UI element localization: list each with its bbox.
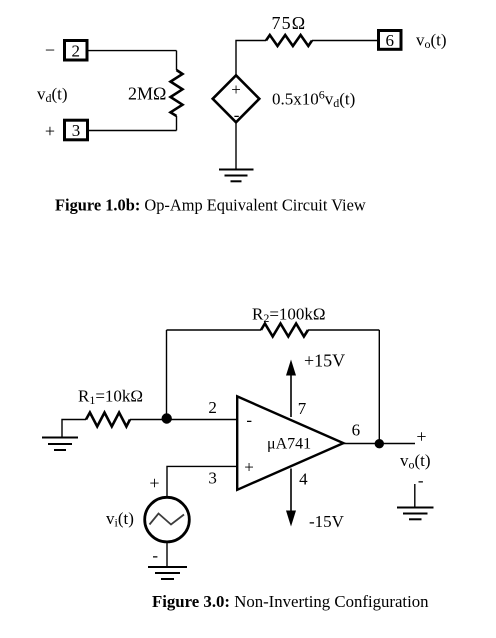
svg-text:vi(t): vi(t) — [106, 509, 134, 530]
svg-text:-: - — [418, 471, 424, 490]
wire R1 to summing node — [130, 419, 167, 421]
dependent source U1 (diamond VCVS) — [213, 75, 260, 124]
resistor Rin 2MΩ (vertical zigzag) — [171, 51, 183, 131]
wire dependent source top to 75Ω resistor — [236, 41, 266, 76]
svg-text:-: - — [152, 546, 158, 565]
wire source bottom to ground — [166, 542, 168, 567]
svg-text:R1=10kΩ: R1=10kΩ — [78, 387, 143, 408]
svg-text:2MΩ: 2MΩ — [128, 84, 166, 104]
svg-text:vo(t): vo(t) — [400, 451, 431, 472]
svg-text:7: 7 — [298, 399, 307, 418]
wire dependent source bottom to ground — [235, 122, 237, 169]
svg-text:2: 2 — [208, 398, 217, 417]
ground (fig2, below source) — [148, 567, 187, 579]
junction node (output node) — [375, 439, 384, 448]
svg-text:+: + — [244, 458, 254, 477]
wire ground to R1 — [62, 420, 86, 438]
svg-text:R2=100kΩ: R2=100kΩ — [252, 305, 326, 326]
svg-text:−: − — [45, 40, 55, 60]
ground (fig2 right, output reference) — [397, 508, 434, 520]
wire feedback left vertical — [166, 330, 168, 418]
wire feedback top right segment — [308, 329, 379, 331]
svg-text:+: + — [231, 80, 241, 99]
power arrow -15V (pin 4) — [286, 469, 296, 527]
svg-text:+15V: +15V — [304, 351, 345, 371]
svg-text:+: + — [416, 427, 426, 447]
svg-text:0.5x106vd(t): 0.5x106vd(t) — [272, 88, 355, 111]
source V1 vi(t) (circle with triangle wave) — [145, 497, 190, 542]
wire feedback right vertical — [378, 330, 380, 444]
resistor Ro 75Ω (horizontal zigzag) — [266, 35, 312, 46]
wire op-amp output — [343, 443, 415, 445]
svg-text:3: 3 — [208, 469, 217, 488]
svg-text:vd(t): vd(t) — [37, 85, 68, 106]
svg-text:-15V: -15V — [309, 512, 345, 531]
terminal box pin 3 — [65, 120, 88, 140]
svg-text:75Ω: 75Ω — [272, 13, 307, 33]
junction node (summing node, inverting input) — [162, 413, 172, 423]
svg-text:3: 3 — [72, 121, 81, 140]
wire pin3 to Rin bottom — [89, 130, 177, 132]
wire vo to ground — [414, 484, 416, 507]
svg-text:vo(t): vo(t) — [416, 31, 447, 52]
svg-text:+: + — [45, 121, 55, 141]
power arrow +15V (pin 7) — [286, 360, 296, 418]
svg-text:+: + — [149, 473, 159, 493]
svg-text:Figure 3.0: Non-Inverting Conf: Figure 3.0: Non-Inverting Configuration — [152, 592, 429, 611]
ground (fig1, below dependent source) — [219, 170, 254, 182]
svg-text:-: - — [246, 410, 252, 429]
resistor R1 (horizontal zigzag) — [86, 413, 130, 427]
wire summing node to op-amp inverting input — [167, 419, 238, 421]
svg-text:4: 4 — [299, 470, 308, 489]
wire 75Ω to pin 6 box — [312, 40, 377, 42]
svg-text:μA741: μA741 — [267, 436, 311, 453]
terminal box pin 2 — [65, 41, 88, 61]
resistor R2 (horizontal zigzag) — [261, 324, 308, 337]
svg-text:6: 6 — [352, 421, 361, 440]
terminal box pin 6 — [379, 31, 402, 50]
wire pin2 to Rin — [89, 50, 177, 52]
svg-text:2: 2 — [71, 41, 80, 60]
svg-text:6: 6 — [385, 31, 394, 50]
svg-text:Figure 1.0b: Op-Amp Equivalent: Figure 1.0b: Op-Amp Equivalent Circuit V… — [55, 196, 366, 215]
wire source to op-amp non-inverting input — [167, 466, 238, 496]
wire feedback top left segment — [167, 329, 262, 331]
op-amp U1 μA741 (triangle) — [237, 396, 343, 489]
svg-text:-: - — [234, 106, 240, 125]
ground (fig2 left, at R1 input) — [42, 438, 78, 451]
